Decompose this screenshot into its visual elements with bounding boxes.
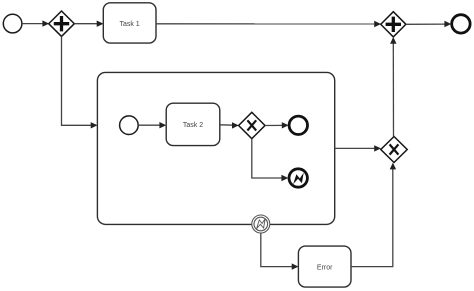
end event (top-right thick circle) [452, 15, 470, 33]
wire: Task 2 to exclusive gateway X1 [220, 122, 239, 128]
svg-text:Error: Error [317, 264, 333, 271]
wire: start event to parallel gateway G1 [22, 20, 49, 26]
subprocess container [97, 72, 334, 224]
start event (inside subprocess) [120, 116, 139, 135]
task Task 2 [166, 103, 220, 145]
end event (inside subprocess, thick circle) [289, 116, 307, 134]
task Error [298, 246, 351, 287]
parallel gateway G1 [49, 11, 75, 36]
svg-text:Task 2: Task 2 [183, 122, 203, 129]
wire: G2 to end event [406, 21, 451, 27]
wire: G1 down and into subprocess [62, 36, 98, 128]
wire: Task 1 to parallel gateway G2 [156, 21, 381, 27]
wire: subprocess to exclusive gateway X2 [335, 145, 381, 151]
wire: Error task right, up to X2 [351, 163, 396, 267]
exclusive gateway X2 (right side) [381, 137, 407, 163]
wire: X2 up to G2 [390, 37, 396, 137]
error end event (thick circle with filled lightning) [289, 169, 307, 187]
task Task 1 [103, 3, 156, 43]
parallel gateway G2 (top right) [381, 12, 406, 37]
start event (top-left circle) [3, 14, 22, 33]
wire: inner start to Task 2 [138, 122, 166, 128]
svg-text:Task 1: Task 1 [119, 21, 139, 28]
wire: boundary event down to Error task [261, 233, 299, 270]
wire: X1 down to error end event [252, 139, 288, 182]
wire: X1 to inner end event [265, 122, 289, 128]
error boundary event (double circle with lightning outline) on subprocess bottom edge [252, 215, 270, 233]
wire: G1 to Task 1 [74, 21, 103, 27]
exclusive gateway X1 (inside subprocess) [239, 112, 265, 138]
